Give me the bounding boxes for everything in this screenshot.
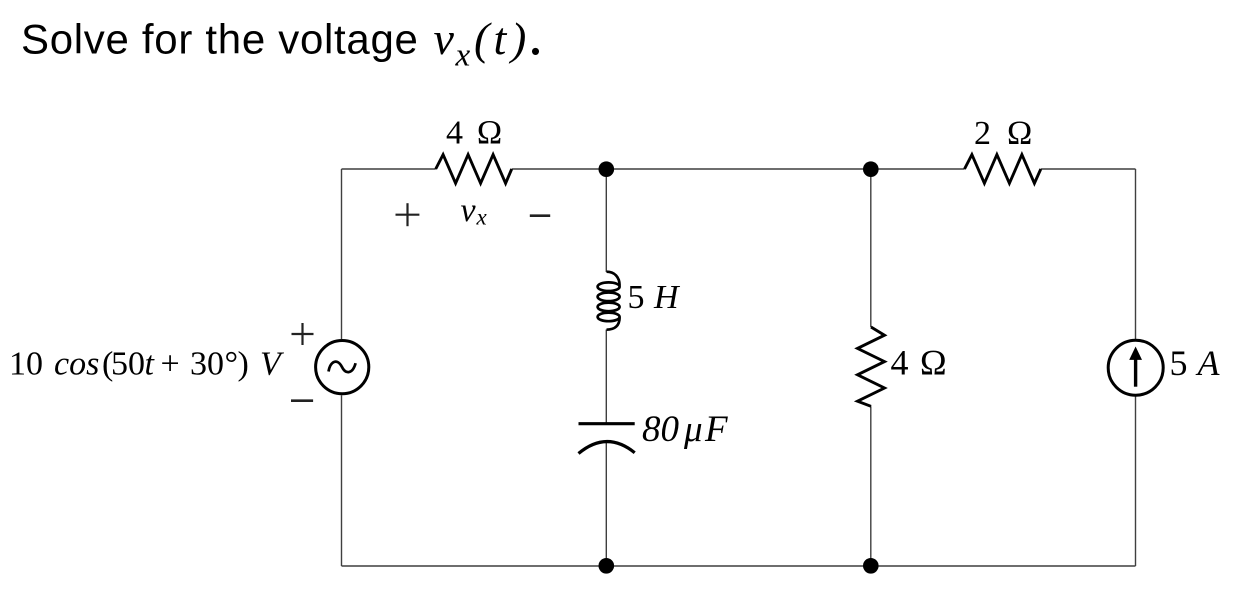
- svg-text:80μF: 80μF: [642, 409, 728, 450]
- plus sign of vx: [396, 203, 420, 226]
- node C (bottom middle): [599, 558, 615, 574]
- wire: middle branch below capacitor: [605, 442, 607, 566]
- current source CS 5 A: [1108, 340, 1163, 395]
- svg-text:4Ω: 4Ω: [891, 342, 948, 382]
- arrow inside current source: [1129, 347, 1142, 387]
- wire: right-middle branch below R3: [870, 406, 872, 566]
- wire: left vertical above source: [341, 169, 343, 339]
- resistor R3 4 ohm (vertical): [858, 327, 885, 406]
- capacitor C1 80 uF: [579, 424, 635, 454]
- resistor R2 2 ohm (top right): [965, 155, 1041, 184]
- inductor L1 5 H: [598, 272, 620, 330]
- wire: right vertical below current source: [1135, 396, 1137, 566]
- resistor R1 4 ohm (top left): [436, 155, 512, 184]
- wire: middle branch above inductor: [605, 169, 607, 272]
- svg-text:Solve for the voltage: Solve for the voltage: [21, 15, 419, 62]
- plus sign above source: [292, 323, 314, 345]
- wire: left vertical below source: [341, 395, 343, 566]
- voltage source VS: [316, 341, 369, 394]
- wire: top-left horizontal to R1: [342, 168, 436, 170]
- wire: R1 to node B via node A: [512, 168, 965, 170]
- node A (top middle): [599, 161, 615, 177]
- wire: right-middle branch above R3: [870, 169, 872, 327]
- wire: bottom horizontal: [342, 565, 1136, 567]
- wire: right vertical above current source: [1135, 169, 1137, 339]
- title: Solve for the voltage vx(t).: [21, 1, 543, 74]
- svg-text:5H: 5H: [628, 279, 682, 316]
- wire: R2 to top-right corner: [1041, 168, 1136, 170]
- sine symbol inside source: [329, 362, 356, 373]
- minus sign below source: [291, 399, 313, 402]
- minus sign of vx: [530, 214, 550, 217]
- node B (top right-middle): [863, 161, 879, 177]
- wire: middle branch inductor to capacitor: [605, 330, 607, 424]
- node D (bottom right-middle): [863, 558, 879, 574]
